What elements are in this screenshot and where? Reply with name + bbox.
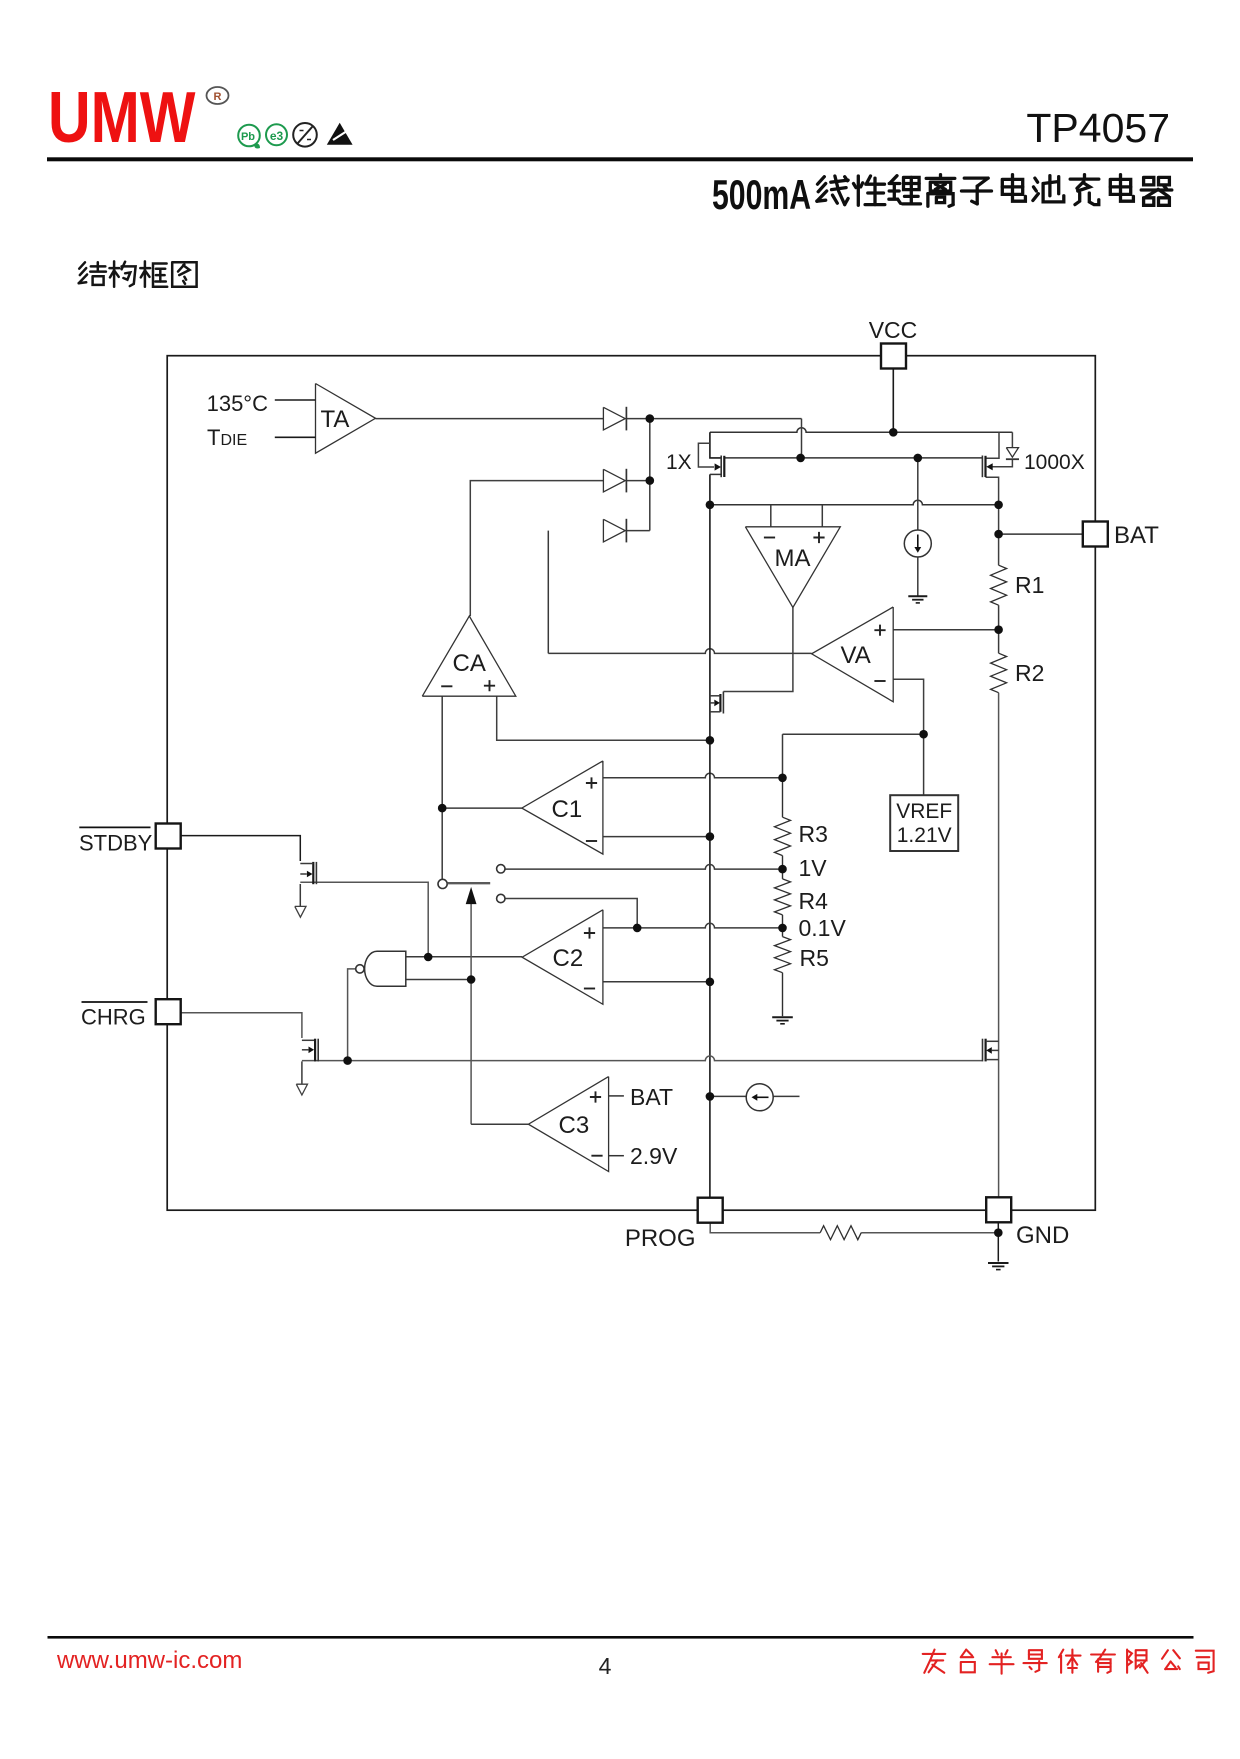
block outer border: [167, 356, 1095, 1210]
wire CHRG to FET: [181, 1013, 302, 1038]
svg-text:VA: VA: [841, 642, 871, 669]
op-amp C2: [522, 910, 603, 1005]
wire C1 plus line to R3 top, hop over bus: [603, 773, 783, 778]
pin GND: [986, 1197, 1011, 1222]
switch contact 2: [497, 894, 505, 902]
wire CA output up to diode2: [470, 481, 603, 616]
selector arrow head: [466, 887, 477, 904]
svg-text:BAT: BAT: [1114, 522, 1159, 549]
transistor STDBY open-drain FET: [312, 862, 314, 884]
op-amp VA: [812, 607, 894, 702]
wire MA non-inverting tap: [821, 505, 823, 527]
wire VCC lead down to top rail: [892, 369, 894, 433]
wire diode junction vertical x=650: [649, 419, 651, 531]
wire PROG external resistor path: [710, 1223, 998, 1233]
svg-text:STDBY: STDBY: [79, 831, 153, 856]
wire TA output to diode row: [376, 418, 604, 420]
resistor R3: [775, 817, 791, 855]
wire trickle current source stub: [773, 1095, 799, 1097]
current source I1: [904, 530, 931, 557]
Pb-free icon: [238, 125, 260, 147]
wire CA minus lead down to switch: [441, 696, 443, 879]
wire 1X source lead: [710, 432, 721, 458]
ESD triangle icon: [327, 123, 353, 145]
wire central bus (PROG): [709, 474, 711, 1197]
wire y=734 down to R3 top: [782, 734, 784, 778]
op-amp MA: [745, 527, 840, 608]
body diode of 1000X: [1006, 448, 1018, 458]
svg-text:MA: MA: [775, 545, 811, 572]
ground under divider: [772, 1016, 793, 1018]
wire C1 minus to bus: [603, 836, 710, 838]
wire switch contact 1 to 1V tap, hop over bus: [505, 864, 782, 869]
wire C3 apex lead: [471, 1123, 528, 1125]
wire VREF node horizontal y=734: [783, 733, 924, 735]
diode D3: [603, 519, 625, 542]
svg-text:1.21V: 1.21V: [897, 824, 952, 847]
svg-text:GND: GND: [1016, 1222, 1069, 1249]
svg-text:1V: 1V: [799, 855, 828, 881]
wire current source to ground: [917, 557, 919, 596]
svg-text:C3: C3: [559, 1112, 590, 1139]
footer company name 友台半导体有限公司: [923, 1653, 946, 1655]
svg-text:BAT: BAT: [630, 1084, 673, 1110]
switch contact 1: [497, 865, 505, 873]
wire STDBY FET source to digital ground: [299, 884, 301, 906]
wire VA output left to diode3, hop over bus: [548, 649, 811, 654]
digital ground STDBY: [295, 906, 306, 917]
svg-text:4: 4: [599, 1653, 612, 1679]
svg-text:2.9V: 2.9V: [630, 1143, 678, 1169]
wire x=801.5 down to gate rail: [801, 419, 803, 458]
wire NAND output down to gate line: [348, 969, 356, 1061]
wire diode1 row to corner x=801.5: [627, 418, 802, 420]
svg-text:e3: e3: [270, 129, 284, 143]
wire selector arrow line: [470, 904, 472, 1124]
op-amp TA (thermal): [316, 384, 376, 454]
resistor R1: [991, 565, 1007, 605]
wire diode2 stub: [627, 480, 650, 482]
wire CA plus lead to bus: [497, 696, 710, 740]
diode D2: [603, 469, 625, 492]
wire R1-R2 and down to GND-side FET: [998, 605, 1000, 653]
svg-text:R2: R2: [1015, 660, 1044, 686]
wire bus to trickle current source: [710, 1095, 746, 1097]
subtitle 500mA linear li-ion charger: [712, 171, 811, 218]
svg-text:R3: R3: [799, 821, 828, 847]
op-amp C1: [522, 761, 603, 854]
wire gate rail y=458 between 1X and 1000X: [724, 457, 982, 459]
switch blade: [448, 882, 491, 884]
wire top supply rail y=432 with hop over x=801.5: [710, 428, 1013, 433]
pin BAT: [1083, 522, 1108, 547]
digital ground CHRG: [296, 1084, 307, 1095]
wire drain rail y=505 bus to 1000X drain, hop over x=917.8: [710, 500, 999, 505]
pin PROG: [698, 1198, 723, 1223]
svg-text:1X: 1X: [666, 451, 692, 474]
svg-text:R5: R5: [800, 945, 829, 971]
wire NAND/C2 apex line: [406, 956, 522, 958]
svg-text:R1: R1: [1015, 572, 1044, 598]
wire 1000X drain down to BAT node: [986, 477, 999, 565]
svg-text:C1: C1: [552, 796, 583, 823]
transistor CHRG open-drain FET: [314, 1039, 316, 1062]
svg-text:TP4057: TP4057: [1026, 105, 1170, 151]
wire TA input 2: [275, 436, 316, 438]
wire CHRG FET source to digital ground: [301, 1061, 303, 1084]
svg-text:500mA: 500mA: [712, 171, 811, 218]
svg-text:CHRG: CHRG: [81, 1005, 146, 1030]
label STDBY with overline: [79, 826, 150, 828]
UMW logo: [48, 76, 196, 157]
wire VA plus input to R1/R2 tap: [893, 629, 998, 631]
wire STDBY FET gate line to NAND input 1: [300, 882, 428, 957]
junction dots: [646, 414, 655, 423]
pin CHRG: [156, 999, 181, 1024]
wire diode3 anode riser: [547, 531, 549, 654]
wire switch contact 2 jog to C2 plus line: [505, 899, 637, 928]
resistor PROG external: [820, 1226, 861, 1240]
svg-text:0.1V: 0.1V: [799, 915, 847, 941]
transistor 1X sense PMOS: [698, 443, 714, 467]
svg-text:CA: CA: [453, 650, 486, 677]
resistor R5: [775, 937, 791, 973]
svg-text:R: R: [214, 91, 222, 103]
wire TA input 1: [275, 399, 316, 401]
transistor 1000X power PMOS: [981, 456, 983, 478]
wire GND pin stub and ground: [997, 1222, 999, 1261]
wire C2 plus line to 0.1V tap, hop over bus: [603, 923, 783, 928]
pin STDBY: [156, 824, 181, 849]
trickle current source I2: [746, 1084, 773, 1111]
op-amp C3: [528, 1077, 608, 1172]
wire R3 string base to ground: [782, 973, 784, 1017]
C3 plus tick: [609, 1095, 624, 1097]
wire diode3 stub: [627, 530, 650, 532]
resistor R4: [775, 879, 791, 915]
svg-text:TA: TA: [321, 406, 350, 433]
wire STDBY to FET: [181, 836, 301, 861]
transistor gate pulldown FET: [719, 694, 721, 712]
svg-text:www.umw-ic.com: www.umw-ic.com: [56, 1647, 242, 1674]
registered trademark symbol: [207, 87, 229, 104]
svg-text:135°C: 135°C: [207, 391, 269, 416]
ground at GND pin: [988, 1262, 1009, 1264]
wire C1 apex to CA minus lead: [442, 807, 522, 809]
op-amp CA: [422, 616, 516, 696]
section heading 结构框图 (block diagram): [79, 262, 85, 268]
wire 1000X body diode link: [991, 432, 1012, 467]
svg-text:UMW: UMW: [48, 76, 196, 157]
svg-text:VREF: VREF: [896, 800, 952, 823]
wire 1000X top stub riser: [986, 432, 1000, 458]
header rule: [47, 157, 1193, 161]
svg-text:PROG: PROG: [625, 1225, 696, 1252]
wire C2 minus to bus: [603, 981, 710, 983]
diode D1: [603, 407, 625, 430]
wire long gate line to GND-side FET, hop over bus: [302, 1056, 983, 1061]
C3 minus tick: [609, 1155, 624, 1157]
wire CHRG FET drain stub row: [302, 1039, 315, 1041]
svg-text:R4: R4: [799, 888, 829, 914]
wire current source riser x=917.8: [917, 458, 919, 530]
wire MA inverting tap: [770, 505, 772, 527]
svg-text:VCC: VCC: [869, 317, 918, 343]
halogen-free icon: [293, 123, 317, 147]
NAND gate: [365, 951, 406, 986]
wire VA minus to VREF node: [893, 679, 923, 734]
svg-text:C2: C2: [553, 945, 584, 972]
ground under current source I1: [908, 595, 927, 597]
svg-text:Pb: Pb: [241, 131, 255, 143]
pin VCC: [881, 344, 906, 369]
transistor GND-side FET: [984, 1039, 986, 1062]
footer rule: [48, 1636, 1194, 1639]
wire MA output to pulldown FET gate: [723, 608, 793, 692]
e3 icon: [266, 124, 287, 145]
resistor R2: [991, 653, 1007, 693]
VREF box: [890, 795, 958, 851]
wire NAND input 2: [406, 979, 471, 981]
label CHRG with overline: [82, 1001, 148, 1003]
wire BAT node to BAT pin: [999, 533, 1083, 535]
switch common contact: [438, 879, 447, 888]
wire VREF box lead: [923, 734, 925, 795]
svg-text:1000X: 1000X: [1024, 451, 1085, 474]
